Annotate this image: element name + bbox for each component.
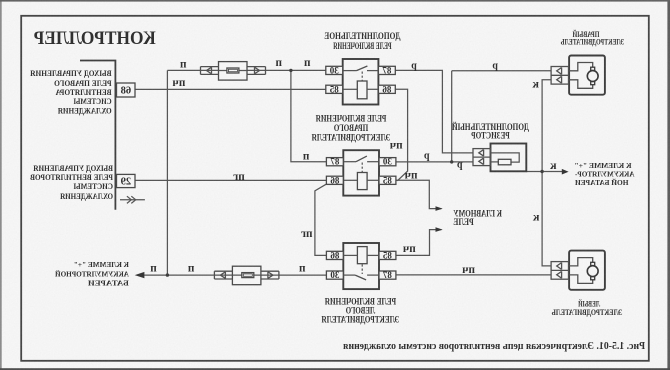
relay K2 dashed actuator link [361,163,363,173]
relay K3 pin 86 [326,251,343,259]
fuse F1 connector left chevron [247,67,266,75]
relay K1 pin 87 [378,66,395,74]
relay K3 pin 85 [379,251,396,259]
fuse F1 element [219,70,248,72]
continuation arrow >> on pin 29 output [120,196,145,203]
wire п : top relay 87 to resistor branch [395,70,472,152]
controller outline [80,61,115,210]
wire п : battery to bottom relay 30 (through fuse F2) [144,274,326,276]
fuse F2 connector left chevron [261,271,279,279]
relay K3 pin 87 [379,271,396,279]
relay K3 pin 30 [326,271,343,279]
motor M2 левый электродвигатель [551,251,605,290]
junction node: top wire / mid relay branch [289,69,292,72]
node text: к клемме + аккумуляторной батареи (right motor side) [574,161,634,187]
wire к : arrow to battery plus (right) [542,171,563,173]
junction node: к bus / resistor output [540,170,543,173]
wire п : battery feed top (controller side, fuse F1 segment) [167,69,325,71]
relay K2 реле включения правого электродвигателя : body [343,150,379,195]
wire colour labels [150,57,557,276]
fuse F1 body [219,62,248,81]
fuse F2 body [232,266,261,285]
wire пг : controller 29 to middle relay 86 [135,179,326,181]
relay K3 реле включения левого электродвигателя : body [343,243,379,289]
relay K1 pin 30 [326,66,343,74]
wire п : branch to middle relay 87 [291,70,327,161]
relay K2 pin 85 [379,176,396,184]
resistor R1 internal wiring [491,153,520,162]
relay K2 coil [357,173,367,190]
fuse F1 connector right chevron [201,67,219,75]
junction node: resistor bottom / motor branch [450,160,453,163]
wire к : right motor to battery bus [542,80,551,266]
wire пч : middle relay 85 to main-relay arrow 1 [396,180,442,208]
controller output text: правый вентилятор [30,69,112,115]
resistor R1 element [498,159,511,165]
arrow to main relay 2 [436,227,443,232]
arrow to battery plus (left bottom) [135,272,145,278]
page edge top hairline [0,0,670,2]
relay K1 contact 30-87 [367,70,378,72]
controller pin 68 [117,83,136,97]
relay K3 dashed actuator link [361,264,363,274]
controller pin 29 [117,174,136,187]
controller output text: реле вентиляторов [30,164,113,201]
relay K2 pin 30 [379,158,396,166]
node text: к клемме + аккумуляторной батареи (bottom) [55,260,129,287]
wire пг : middle relay 86 to bottom relay 86 [315,184,327,255]
wire пч : top relay 86 down to middle relay 85 [395,89,407,180]
motor M1 правый электродвигатель [551,56,605,95]
relay K1 pin 85 [326,85,343,93]
wire branch V2 to resistor bottom node [451,71,453,162]
wire р : resistor bottom row to middle relay 30 [396,161,473,163]
relay K1 dashed actuator link [361,72,363,81]
relay K1 coil [357,81,367,99]
wire р : right motor supply [452,70,551,72]
relay K1 дополнительное реле включения : body [343,59,379,105]
page edge right hairline [0,0,2,370]
page edge left bar [667,0,670,370]
relay K2 contact 30-87 [367,161,379,163]
relay K2 pin 86 [326,176,343,184]
relay K3 contact 30-87 (bottom) [367,274,379,276]
wire пч : bottom relay 87 to left motor [396,274,551,276]
wire пч : controller 68 to top relay 85 [135,88,326,90]
fuse F2 element [232,274,261,276]
fuse F2 connector right chevron [214,271,232,279]
page bottom bar [0,368,670,370]
resistor R1 дополнительный резистор : body [491,144,527,172]
junction node: battery bus bottom [166,273,169,276]
wire к : resistor output to bus [526,171,542,173]
arrow to main relay 1 [436,206,443,211]
resistor R1 connector (2-pin chevrons) [473,149,491,166]
relay K1 pin 86 [378,85,395,93]
relay K3 coil (top) [357,247,367,264]
wire пч : bottom relay 85 to main-relay arrow 2 [396,230,442,256]
wire п : vertical battery bus (top wire to bottom wire) [166,70,168,275]
relay K2 pin 87 [326,158,343,166]
